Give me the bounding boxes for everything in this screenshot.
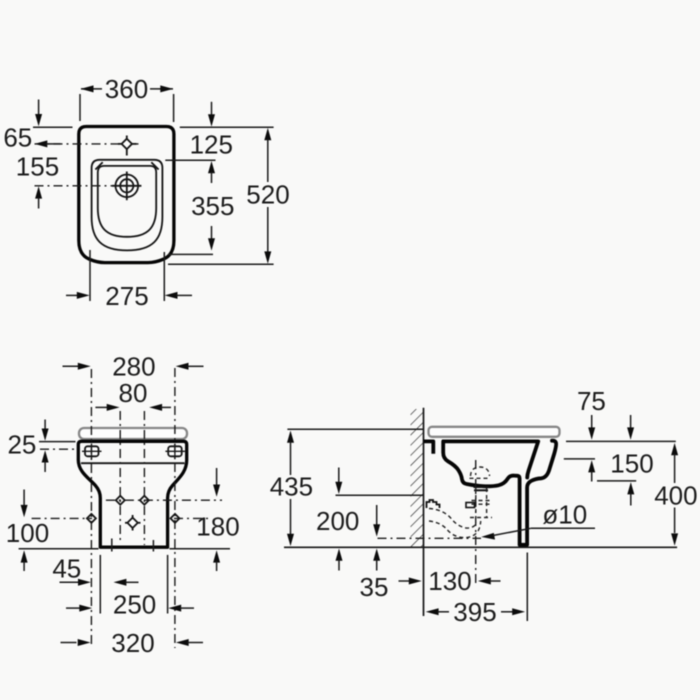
svg-text:355: 355 bbox=[191, 191, 234, 221]
svg-text:ø10: ø10 bbox=[542, 500, 587, 530]
fixing holes centerline dash-dot (upper) bbox=[106, 499, 222, 501]
svg-text:35: 35 bbox=[360, 572, 389, 602]
dim 275 extension lines bbox=[89, 250, 91, 301]
svg-text:320: 320 bbox=[111, 628, 154, 658]
dim 280 arrows bbox=[63, 365, 80, 367]
trap inlet small box bbox=[466, 503, 475, 508]
inner centerline right vertical dash-dot bbox=[143, 411, 145, 545]
bowl profile, leg and back bbox=[443, 441, 556, 545]
svg-text:395: 395 bbox=[453, 597, 496, 627]
lower centerline dash-dot left bbox=[32, 517, 92, 519]
lower centerline dash-dot right bbox=[174, 517, 209, 519]
trap dashed upper curve bbox=[429, 509, 477, 529]
svg-text:150: 150 bbox=[610, 448, 653, 478]
dim 355 up arrow bbox=[208, 161, 215, 173]
dia10 leader arrow bbox=[481, 533, 495, 540]
floor line bbox=[284, 546, 677, 548]
dim 45 arrows bbox=[60, 581, 80, 583]
bowl corner chamfer right bbox=[151, 162, 158, 169]
base extension line left bbox=[19, 548, 99, 550]
dim 75 arrows bbox=[591, 415, 593, 428]
wall line bbox=[423, 408, 425, 616]
dim 360 line and arrows bbox=[81, 88, 102, 90]
drain centerline dash-dot bbox=[35, 185, 113, 187]
dim 200 extension line bbox=[336, 494, 424, 496]
dim 355 down arrow bbox=[211, 226, 213, 239]
dim 435 line and arrows bbox=[287, 431, 294, 443]
drain target symbol bbox=[112, 172, 141, 201]
bowl corner chamfer left bbox=[95, 162, 102, 169]
saddle reference line bbox=[597, 480, 636, 482]
faucet hole cross bbox=[118, 136, 137, 156]
dim 100 down arrow bbox=[23, 490, 25, 507]
svg-text:280: 280 bbox=[112, 351, 155, 381]
dim 35 down arrow bbox=[376, 505, 378, 525]
svg-text:65: 65 bbox=[3, 123, 32, 153]
dim 520 extension line bottom bbox=[168, 263, 274, 265]
drain pipe dashed outline bbox=[470, 488, 492, 518]
drain dome dashed arc bbox=[471, 467, 490, 476]
dim 395 right extension line bbox=[526, 553, 528, 622]
dim 125 extension line top bbox=[180, 126, 274, 128]
drain axis dash-dot bbox=[378, 537, 482, 539]
fixing hole cross left bbox=[116, 496, 125, 505]
drain dome base dashed bbox=[470, 477, 491, 479]
back horn inner edge bbox=[527, 441, 538, 477]
body outline bbox=[78, 441, 186, 547]
VIEW1 top plan view of bidet bbox=[3, 74, 289, 311]
svg-text:180: 180 bbox=[196, 512, 239, 542]
dim 520 line and arrows bbox=[264, 128, 271, 140]
rim bar (gray) bbox=[429, 427, 560, 437]
bowl rim inner bbox=[98, 166, 156, 237]
svg-text:360: 360 bbox=[105, 74, 148, 104]
shelf line bbox=[81, 462, 185, 464]
svg-text:25: 25 bbox=[7, 429, 36, 459]
dim 100 up arrow bbox=[21, 550, 28, 562]
drain vertical centerline bbox=[475, 460, 477, 584]
trap dashed lower curve bbox=[429, 521, 481, 538]
dim 125 down arrow bbox=[211, 102, 213, 115]
body outline bbox=[79, 127, 174, 263]
top reference line right bbox=[566, 440, 676, 442]
svg-text:80: 80 bbox=[119, 378, 148, 408]
fixing hole cross right bbox=[140, 496, 149, 505]
svg-text:275: 275 bbox=[105, 281, 148, 311]
faucet hole centerline dash-dot bbox=[35, 143, 140, 145]
rim bar (gray) bbox=[79, 428, 187, 439]
dim 155 up arrow bbox=[35, 186, 42, 198]
rim top reference line bbox=[287, 428, 423, 430]
dim 25 centerline dash-dot bbox=[40, 448, 78, 450]
svg-text:100: 100 bbox=[6, 518, 49, 548]
svg-text:45: 45 bbox=[52, 553, 81, 583]
rear hook of body bbox=[424, 441, 434, 453]
bolt hole left bbox=[82, 444, 102, 460]
wall hatching bbox=[411, 409, 424, 547]
dim 25 down arrow bbox=[44, 420, 46, 430]
hidden ticks at base bbox=[111, 539, 113, 552]
dim 150 lower up arrow bbox=[627, 482, 634, 494]
svg-text:155: 155 bbox=[16, 152, 59, 182]
dim 80 arrows bbox=[95, 406, 107, 408]
dim 320 arrows bbox=[61, 642, 77, 644]
bolt centerline left vertical dash-dot bbox=[90, 369, 92, 648]
dim 180 down arrow bbox=[216, 468, 218, 485]
dim 355 extension line (bowl top) bbox=[165, 159, 215, 161]
svg-text:250: 250 bbox=[113, 590, 156, 620]
wall bracket symbol bbox=[427, 500, 440, 508]
marker diamond left bbox=[87, 514, 96, 523]
VIEW2 rear elevation view of bidet bbox=[6, 351, 240, 658]
base extension line right bbox=[170, 548, 231, 550]
dim 150 up arrow bbox=[588, 460, 595, 472]
inner centerline left vertical dash-dot bbox=[119, 411, 121, 541]
dim 355 extension line bottom bbox=[168, 253, 213, 255]
svg-text:125: 125 bbox=[190, 130, 233, 160]
svg-text:200: 200 bbox=[316, 506, 359, 536]
shoulder reference line bbox=[564, 458, 595, 460]
marker diamond right bbox=[171, 514, 180, 523]
dim 200 up arrow bbox=[336, 549, 343, 561]
drain cross center bbox=[125, 515, 141, 531]
dim 65 down arrow bbox=[38, 100, 40, 116]
dim 395 line and arrows bbox=[426, 608, 439, 615]
svg-text:400: 400 bbox=[654, 481, 697, 511]
bowl rim outer bbox=[92, 160, 163, 251]
dim 360 extension lines bbox=[79, 94, 81, 121]
body top edge bbox=[442, 439, 538, 443]
svg-text:75: 75 bbox=[577, 386, 606, 416]
dim 25 up arrow bbox=[42, 450, 49, 462]
bolt centerline right vertical dash-dot bbox=[174, 368, 176, 648]
dim 65 left arrow on centerline bbox=[35, 140, 48, 147]
pedestal extension lines bbox=[99, 555, 101, 614]
svg-text:130: 130 bbox=[428, 566, 471, 596]
svg-text:435: 435 bbox=[270, 472, 313, 502]
dim 275 arrows bbox=[66, 294, 79, 296]
dim 35 up arrow bbox=[373, 549, 380, 561]
bolt hole right bbox=[165, 444, 185, 460]
dim 65 extension line bbox=[33, 126, 73, 128]
dim 200 down arrow bbox=[338, 468, 340, 483]
dim 130 arrows bbox=[399, 580, 411, 582]
dim 400 line and arrows bbox=[671, 443, 678, 455]
svg-text:520: 520 bbox=[246, 179, 289, 209]
dim 180 up arrow bbox=[213, 550, 220, 562]
dim 25 extension line bbox=[39, 441, 76, 443]
drain flange solid bbox=[474, 486, 489, 488]
dim 250 arrows bbox=[66, 607, 81, 609]
